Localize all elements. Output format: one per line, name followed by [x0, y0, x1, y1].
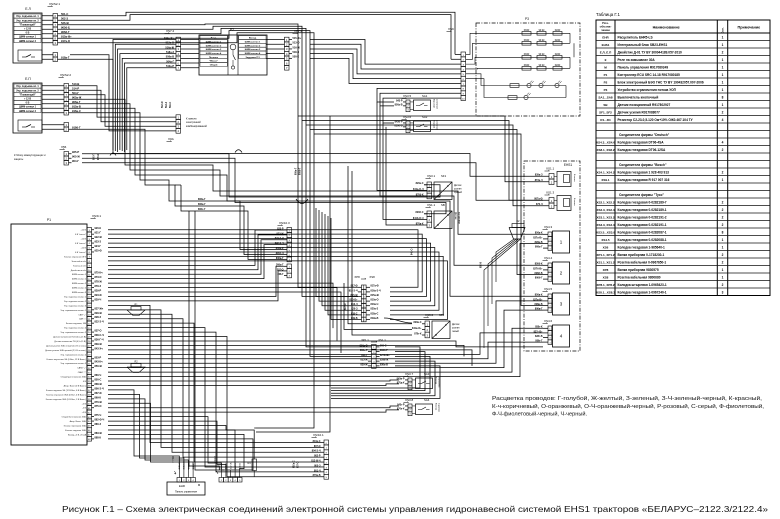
svg-text:620R: 620R — [555, 40, 561, 42]
svg-text:1: 1 — [722, 275, 724, 279]
svg-text:ХS/9.1: ХS/9.1 — [92, 214, 101, 218]
svg-text:Датчик усилия R917088077: Датчик усилия R917088077 — [618, 110, 661, 114]
svg-text:828г-В: 828г-В — [535, 335, 543, 338]
svg-text:1: 1 — [722, 103, 724, 107]
svg-text:816-З-Ч: 816-З-Ч — [349, 289, 358, 292]
svg-text:838-С-Ч: 838-С-Ч — [95, 334, 105, 337]
svg-text:Примечание: Примечание — [738, 26, 761, 30]
svg-text:822-З-Ч: 822-З-Ч — [95, 321, 104, 324]
svg-text:920-К: 920-К — [95, 227, 102, 230]
svg-text:829-Ж: 829-Ж — [95, 312, 103, 315]
svg-text:8: 8 — [722, 230, 724, 234]
svg-text:XS3.1, XS3.2: XS3.1, XS3.2 — [596, 215, 614, 219]
svg-text:90.9К: 90.9К — [539, 30, 545, 32]
svg-text:Клапан перекачки ЭЧБ: Клапан перекачки ЭЧБ — [64, 426, 87, 428]
svg-text:ХS8.1...ХS8.3: ХS8.1...ХS8.3 — [596, 290, 615, 294]
svg-text:Розетка кабельная 9800680: Розетка кабельная 9800680 — [618, 275, 661, 279]
svg-text:1: 1 — [722, 245, 724, 249]
svg-text:0 В: 0 В — [26, 32, 30, 35]
svg-text:ХS/10.1: ХS/10.1 — [313, 433, 324, 437]
svg-text:Колодка гнездовая 0-0282189-1: Колодка гнездовая 0-0282189-1 — [618, 208, 667, 212]
svg-text:2: 2 — [722, 260, 724, 264]
svg-text:906б-Г: 906б-Г — [61, 30, 70, 34]
svg-text:Кнопка подъема ЭЧБ (5 В Вкл, 1: Кнопка подъема ЭЧБ (5 В Вкл, 1 В Выкл.) — [46, 399, 87, 401]
svg-text:829-Ж: 829-Ж — [361, 363, 369, 366]
svg-text:873-О: 873-О — [95, 276, 102, 279]
svg-text:905б-Б: 905б-Б — [61, 25, 70, 29]
svg-text:ШИМ клапан 2: ШИМ клапан 2 — [72, 288, 87, 290]
svg-text:Упр. торможения клапан 4: Упр. торможения клапан 4 — [61, 354, 87, 356]
svg-text:869-К: 869-К — [95, 396, 102, 399]
svg-text:САН2 "+": САН2 "+" — [77, 367, 86, 370]
svg-text:левый: левый — [452, 330, 459, 333]
svg-text:F: F — [445, 323, 447, 327]
svg-text:820в-С: 820в-С — [414, 321, 422, 324]
svg-text:Расцепитель EHR5-LS: Расцепитель EHR5-LS — [618, 35, 653, 39]
svg-text:841-О: 841-О — [411, 248, 414, 255]
svg-text:2: 2 — [722, 223, 724, 227]
svg-text:XS4.3...XS4.6: XS4.3...XS4.6 — [596, 140, 615, 144]
svg-text:853-Р: 853-Р — [95, 356, 102, 359]
svg-text:+ 12 В: + 12 В — [24, 28, 31, 31]
svg-text:850-Ж: 850-Ж — [95, 365, 103, 368]
svg-text:875-Кч: 875-Кч — [95, 272, 104, 275]
svg-text:90.9К: 90.9К — [539, 65, 545, 67]
svg-text:XS2.1, XS2.2: XS2.1, XS2.2 — [596, 200, 614, 204]
svg-text:870г-К: 870г-К — [414, 332, 422, 335]
svg-text:Панель управления: Панель управления — [175, 491, 198, 494]
svg-text:516-Ж: 516-Ж — [293, 46, 301, 49]
svg-text:Таблица Г.1: Таблица Г.1 — [596, 12, 620, 17]
svg-text:868-Ж: 868-Ж — [95, 383, 103, 386]
svg-text:806с-Г: 806с-Г — [198, 208, 206, 211]
svg-text:515-Ф+: 515-Ф+ — [293, 37, 302, 40]
svg-text:ХР8.1, ХР8.2: ХР8.1, ХР8.2 — [596, 283, 614, 287]
svg-text:Е.Л, Е.П: Е.Л, Е.П — [600, 50, 612, 54]
svg-text:SA2: SA2 — [422, 115, 428, 119]
svg-text:883-Ж: 883-Ж — [95, 432, 103, 435]
svg-text:Устройство ограничения потока: Устройство ограничения потока УОП — [618, 88, 677, 92]
svg-text:806а-Г: 806а-Г — [198, 198, 206, 201]
svg-text:4: 4 — [722, 140, 724, 144]
svg-text:880-З: 880-З — [95, 423, 102, 426]
svg-text:8: 8 — [722, 95, 724, 99]
svg-text:Клапан: Клапан — [573, 198, 575, 206]
svg-text:828-З: 828-З — [95, 316, 102, 319]
svg-text:ХS3.5: ХS3.5 — [403, 94, 412, 98]
svg-text:1: 1 — [722, 80, 724, 84]
svg-text:Упр. подъема клапан 2: Упр. подъема клапан 2 — [64, 301, 87, 303]
svg-text:XS9.1: XS9.1 — [601, 178, 610, 182]
svg-text:Датчик: Датчик — [454, 185, 462, 187]
svg-text:827-Жч: 827-Жч — [95, 307, 104, 310]
svg-text:630R: 630R — [524, 40, 530, 42]
svg-text:924-Г: 924-Г — [95, 245, 102, 248]
svg-text:Колодка гнездовая DT06-4SA: Колодка гнездовая DT06-4SA — [618, 140, 665, 144]
svg-text:Нижний: Нижний — [433, 120, 436, 129]
svg-text:807-О: 807-О — [298, 461, 300, 468]
svg-text:Р2: Р2 — [604, 80, 608, 84]
svg-text:XS4.5: XS4.5 — [601, 238, 610, 242]
svg-text:К блоку коммутирующих и: К блоку коммутирующих и — [14, 153, 46, 157]
svg-text:630R: 630R — [524, 54, 530, 56]
svg-text:S: S — [447, 213, 449, 217]
svg-text:ХS1.1: ХS1.1 — [378, 338, 386, 342]
svg-text:ШИМ-сигнал 1: ШИМ-сигнал 1 — [19, 106, 37, 109]
svg-text:1: 1 — [722, 73, 724, 77]
svg-text:ХР8: ХР8 — [354, 275, 360, 279]
svg-text:U: U — [435, 333, 437, 337]
svg-text:Клапан подъема ЭЧБ: Клапан подъема ЭЧБ — [65, 430, 86, 432]
svg-text:526-Ж: 526-Ж — [61, 21, 69, 25]
svg-text:841в-О+: 841в-О+ — [412, 327, 422, 330]
svg-text:806в-Г: 806в-Г — [198, 203, 206, 206]
svg-text:+12 В: +12 В — [81, 230, 87, 232]
svg-text:ХS4.4: ХS4.4 — [544, 256, 553, 260]
svg-text:820а-С: 820а-С — [416, 182, 424, 185]
svg-text:XS3.3, XS3.4: XS3.3, XS3.4 — [596, 223, 614, 227]
svg-text:917а-О: 917а-О — [61, 39, 70, 43]
svg-text:817-Ф: 817-Ф — [344, 303, 347, 310]
svg-text:Интегральный блок SB23-EHS1: Интегральный блок SB23-EHS1 — [618, 43, 668, 47]
svg-text:Джойстик Д-01 ТУ BY 300044189.: Джойстик Д-01 ТУ BY 300044189.057-2010 — [618, 50, 683, 54]
svg-text:САН2 "-": САН2 "-" — [78, 371, 87, 374]
svg-text:SB: SB — [441, 203, 445, 207]
svg-text:Розетка кабельная 0-0967650-1: Розетка кабельная 0-0967650-1 — [618, 260, 667, 264]
svg-text:EHS1: EHS1 — [564, 163, 573, 167]
svg-text:511-С: 511-С — [170, 102, 172, 108]
svg-text:Реле на замыкание 30А: Реле на замыкание 30А — [618, 58, 656, 62]
svg-text:Колодка гнездовая R 917 007 31: Колодка гнездовая R 917 007 316 — [618, 178, 670, 182]
svg-text:2: 2 — [722, 208, 724, 212]
svg-text:90.9К: 90.9К — [539, 54, 545, 56]
svg-text:916а-З: 916а-З — [72, 109, 81, 113]
svg-text:Абор. Выкл (0 В Выкл.): Абор. Выкл (0 В Выкл.) — [64, 384, 87, 387]
svg-text:0 В: 0 В — [26, 102, 30, 105]
svg-text:F: F — [447, 184, 449, 188]
svg-text:САН "+": САН "+" — [78, 313, 86, 316]
svg-text:Общий для клапанов ЭЧБ: Общий для клапанов ЭЧБ — [61, 376, 87, 379]
svg-text:Задержка ПЧ: Задержка ПЧ — [245, 57, 260, 59]
svg-text:2: 2 — [722, 283, 724, 287]
svg-text:Общий: Общий — [210, 64, 218, 67]
svg-text:878-Ж: 878-Ж — [95, 281, 103, 284]
svg-text:ШИМ-сигнал 2: ШИМ-сигнал 2 — [19, 40, 37, 43]
svg-text:Колодка гнездовая 0-0282191-1: Колодка гнездовая 0-0282191-1 — [618, 223, 667, 227]
svg-text:ШИМ-сигнал 2: ШИМ-сигнал 2 — [19, 110, 37, 113]
svg-text:Колодка гнездовая 1-965640-1: Колодка гнездовая 1-965640-1 — [618, 245, 666, 249]
svg-text:К панели: К панели — [186, 118, 197, 121]
svg-text:806б-Г: 806б-Г — [535, 277, 543, 280]
svg-text:Е.Л: Е.Л — [25, 7, 30, 11]
svg-text:843-Кч: 843-Кч — [95, 361, 104, 364]
svg-text:514-Р: 514-Р — [72, 86, 79, 90]
svg-text:2: 2 — [722, 253, 724, 257]
svg-text:810а-О: 810а-О — [371, 299, 379, 302]
svg-text:Датчик положения ПЧ (0,5-4,5 В: Датчик положения ПЧ (0,5-4,5 В) — [54, 341, 86, 343]
svg-text:"Плавающий": "Плавающий" — [19, 93, 36, 96]
svg-text:ХS1.3: ХS1.3 — [546, 191, 555, 195]
svg-text:ХS/S2.2: ХS/S2.2 — [60, 73, 71, 77]
svg-text:813а-Ч: 813а-Ч — [371, 303, 379, 306]
svg-text:Рисунок Г.1 – Схема электричес: Рисунок Г.1 – Схема электрическая соедин… — [62, 505, 769, 514]
svg-text:921-Г: 921-Г — [95, 232, 102, 235]
svg-text:Колодка гнездовая 0-0282088-1: Колодка гнездовая 0-0282088-1 — [618, 238, 667, 242]
svg-text:843-Р: 843-Р — [396, 99, 403, 102]
svg-text:920-Г: 920-Г — [94, 153, 96, 160]
svg-text:806с-Г: 806с-Г — [360, 349, 368, 352]
svg-text:90.9К: 90.9К — [539, 40, 545, 42]
svg-text:U: U — [437, 223, 439, 227]
svg-text:0 В "масса": 0 В "масса" — [75, 243, 86, 245]
svg-text:ХS4.6: ХS4.6 — [544, 319, 553, 323]
svg-text:ШИМ клапан 3: ШИМ клапан 3 — [72, 292, 87, 294]
svg-text:1: 1 — [722, 238, 724, 242]
svg-text:949-В: 949-В — [240, 463, 242, 469]
svg-text:1: 1 — [722, 58, 724, 62]
svg-text:подъема: подъема — [438, 403, 440, 413]
svg-text:+12 В: +12 В — [81, 239, 87, 241]
svg-text:920-К: 920-К — [98, 153, 100, 160]
svg-text:Упр. подъема-оп. 2: Упр. подъема-оп. 2 — [16, 19, 39, 22]
svg-text:конечный: конечный — [436, 99, 439, 109]
svg-text:Колодка гнездовая 1 928 403 91: Колодка гнездовая 1 928 403 913 — [618, 170, 670, 174]
svg-text:Расцветка проводов: Г-голубой,: Расцветка проводов: Г-голубой, Ж-желтый,… — [492, 395, 762, 402]
svg-text:+5 В: +5 В — [82, 403, 87, 405]
svg-text:810а-С: 810а-С — [294, 460, 296, 468]
svg-text:502-З: 502-З — [61, 16, 68, 20]
svg-text:ХS8: ХS8 — [369, 275, 375, 279]
svg-text:усилия: усилия — [454, 188, 462, 190]
svg-text:888-К: 888-К — [95, 436, 102, 439]
svg-text:882-Ф-Ч: 882-Ф-Ч — [95, 419, 105, 422]
svg-text:1: 1 — [722, 178, 724, 182]
svg-text:Упр. торможения клапан 1: Упр. торможения клапан 1 — [61, 310, 87, 312]
svg-text:ХS3.6: ХS3.6 — [403, 115, 412, 119]
svg-text:Колодка гнездовая 1-0967240-1: Колодка гнездовая 1-0967240-1 — [618, 290, 667, 294]
svg-text:925-Р: 925-Р — [72, 150, 79, 154]
svg-text:837-О: 837-О — [95, 330, 102, 333]
svg-text:Наименование: Наименование — [653, 26, 680, 30]
svg-text:SF1, SF2: SF1, SF2 — [599, 110, 612, 114]
svg-text:XS6: XS6 — [603, 245, 609, 249]
svg-text:4: 4 — [722, 118, 724, 122]
svg-text:EHR: EHR — [602, 35, 609, 39]
svg-text:850-К: 850-К — [481, 261, 483, 268]
svg-text:875-Ч: 875-Ч — [95, 414, 102, 417]
svg-text:EHR: EHR — [179, 484, 185, 488]
svg-text:860-Ч: 860-Ч — [95, 374, 102, 377]
svg-text:SF1: SF1 — [441, 174, 447, 178]
svg-text:ХS3.7: ХS3.7 — [405, 372, 414, 376]
svg-text:Вилка приборная 0-1718230-1: Вилка приборная 0-1718230-1 — [618, 253, 665, 257]
svg-text:Кнопка подъема, ЭМ: Кнопка подъема, ЭМ — [66, 323, 86, 325]
svg-text:усилия: усилия — [452, 327, 460, 329]
svg-text:Упр. торможения клапан 3: Упр. торможения клапан 3 — [61, 363, 87, 365]
svg-text:Соединители фирмы "Bosch": Соединители фирмы "Bosch" — [619, 163, 667, 167]
svg-text:Выход +5 В, 20 мА: Выход +5 В, 20 мА — [68, 433, 87, 436]
svg-text:918а-Г: 918а-Г — [61, 55, 70, 59]
svg-text:ШИМ-сигнал 4: ШИМ-сигнал 4 — [245, 52, 261, 55]
svg-text:550-К: 550-К — [293, 56, 300, 59]
svg-text:Датчик усилия ЭЧБ правый (2,5: Датчик усилия ЭЧБ правый (2,5 В не изм.) — [45, 349, 86, 352]
svg-text:905-Ж: 905-Ж — [72, 155, 80, 159]
svg-text:Упр. подъема клапан 1: Упр. подъема клапан 1 — [64, 296, 87, 298]
svg-text:Клапан опускания ЭГК: Клапан опускания ЭГК — [64, 256, 87, 258]
svg-text:1: 1 — [722, 43, 724, 47]
svg-text:829-Р: 829-Р — [95, 290, 102, 293]
svg-text:819а-В: 819а-В — [371, 317, 379, 320]
svg-text:806-З-Ч: 806-З-Ч — [95, 387, 104, 390]
svg-text:XS3.5...XS3.9: XS3.5...XS3.9 — [596, 230, 615, 234]
svg-text:Упр. подъема-оп. 1: Упр. подъема-оп. 1 — [16, 15, 39, 18]
svg-text:EHS1: EHS1 — [602, 43, 610, 47]
svg-text:Блок электронный БЭО ГНС ТУ BY: Блок электронный БЭО ГНС ТУ BY 190432057… — [618, 80, 704, 84]
svg-text:Упр. подъема клапан 4: Упр. подъема клапан 4 — [64, 328, 87, 330]
svg-text:922-Ж: 922-Ж — [95, 236, 103, 239]
svg-text:839-Ж: 839-Ж — [95, 343, 103, 346]
svg-text:R1...R4: R1...R4 — [600, 118, 611, 122]
svg-text:829-Ч: 829-Ч — [95, 298, 102, 301]
svg-text:Зеленый инт/кг: Зеленый инт/кг — [71, 260, 86, 263]
svg-text:ХS1.1: ХS1.1 — [546, 167, 555, 171]
svg-text:308-Г: 308-Г — [277, 273, 284, 276]
svg-text:818а-С: 818а-С — [371, 312, 379, 315]
svg-text:501-С: 501-С — [61, 12, 68, 16]
svg-text:513-З: 513-З — [166, 101, 168, 108]
svg-text:915а-В: 915а-В — [72, 104, 81, 108]
svg-text:Датчик позиционный R917802927: Датчик позиционный R917802927 — [618, 103, 671, 107]
svg-text:867-Ф: 867-Ф — [95, 392, 103, 395]
svg-text:Кнопка опускания ЭЧ (0 Вкл, 12: Кнопка опускания ЭЧ (0 Вкл, 12 В Выкл.) — [47, 359, 87, 361]
svg-text:SA1...SA8: SA1...SA8 — [598, 95, 613, 99]
svg-text:Кнопка подъема ЭЧ (12 В Вкл, 0: Кнопка подъема ЭЧ (12 В Вкл, 0 В Выкл.) — [46, 390, 86, 392]
svg-text:620R: 620R — [555, 30, 561, 32]
svg-text:806б-Г: 806б-Г — [299, 167, 302, 175]
svg-text:XS4.1, XS4.2: XS4.1, XS4.2 — [596, 170, 614, 174]
svg-text:Колодка гнездовая 0-0282191-2: Колодка гнездовая 0-0282191-2 — [618, 215, 667, 219]
svg-text:Датчик положения ПЧ1 (0,5-4,5: Датчик положения ПЧ1 (0,5-4,5 В) — [53, 337, 86, 339]
svg-text:"Плавающий": "Плавающий" — [19, 23, 36, 26]
svg-text:Упр. подъема-оп. 1: Упр. подъема-оп. 1 — [16, 85, 39, 88]
svg-text:923-З: 923-З — [95, 241, 102, 244]
svg-text:510-В: 510-В — [72, 82, 79, 86]
svg-text:ХР1.1: ХР1.1 — [361, 338, 369, 342]
svg-text:0 В "масса": 0 В "масса" — [75, 252, 86, 254]
svg-text:870-Ж: 870-Ж — [95, 401, 103, 404]
svg-text:620R: 620R — [555, 65, 561, 67]
svg-text:816а-З-Ч: 816а-З-Ч — [371, 289, 381, 292]
svg-text:электронной: электронной — [186, 121, 201, 124]
svg-text:Датчик усилия ЭЧБ левый (2,5 В: Датчик усилия ЭЧБ левый (2,5 В не изм.) — [46, 344, 86, 347]
svg-text:Р1: Р1 — [47, 218, 51, 222]
svg-text:Выключатель кнопочный: Выключатель кнопочный — [618, 95, 659, 99]
svg-text:Кнопка: Кнопка — [435, 403, 437, 411]
svg-text:XS1.1, XS1.2: XS1.1, XS1.2 — [596, 260, 614, 264]
svg-text:827б-В+: 827б-В+ — [533, 267, 543, 270]
svg-text:2: 2 — [722, 50, 724, 54]
svg-text:905а-Ж: 905а-Ж — [72, 95, 82, 99]
svg-text:2: 2 — [722, 215, 724, 219]
svg-text:Панель управления R917080349: Панель управления R917080349 — [618, 65, 669, 69]
svg-text:Колодка гнездовая 0-0282087-1: Колодка гнездовая 0-0282087-1 — [618, 230, 667, 234]
svg-text:925-Ф: 925-Ф — [95, 249, 103, 252]
svg-text:ХР1.1, ХР1.2: ХР1.1, ХР1.2 — [596, 253, 614, 257]
svg-text:2: 2 — [722, 170, 724, 174]
svg-text:Р3: Р3 — [525, 17, 529, 21]
svg-text:620R: 620R — [555, 54, 561, 56]
svg-text:+5 В: +5 В — [82, 412, 87, 414]
svg-text:918б-Г: 918б-Г — [72, 125, 81, 129]
svg-text:Резистор С2-23-0,5-120 Ом+10%: Резистор С2-23-0,5-120 Ом+10% ОЖ0.467.10… — [618, 118, 694, 122]
svg-text:Ф-Ч-фиолетовый-черный, Ч-черны: Ф-Ч-фиолетовый-черный, Ч-черный. — [492, 411, 587, 418]
svg-text:САН "-": САН "-" — [79, 318, 86, 321]
svg-text:518-З: 518-З — [293, 51, 300, 54]
svg-text:830а-В: 830а-В — [380, 363, 388, 366]
svg-text:879-З: 879-З — [95, 285, 102, 288]
svg-text:823-Ф: 823-Ф — [95, 294, 103, 297]
svg-text:1: 1 — [722, 268, 724, 272]
svg-text:806б-Г: 806б-Г — [380, 349, 388, 352]
svg-text:904-Г: 904-Г — [72, 159, 79, 163]
svg-text:Колодка гнездовая 0-0282189-7: Колодка гнездовая 0-0282189-7 — [618, 200, 667, 204]
svg-text:ХS/S2.1: ХS/S2.1 — [49, 2, 60, 6]
svg-text:850-С: 850-С — [95, 379, 102, 382]
svg-text:Джойстик инт/кг: Джойстик инт/кг — [71, 269, 86, 272]
svg-text:+12 В: +12 В — [81, 248, 87, 250]
svg-text:XS2.3, XS2.4: XS2.3, XS2.4 — [596, 208, 614, 212]
svg-text:ХЗА: ХЗА — [168, 137, 174, 141]
svg-text:Колодка гнездовая DT06-12SA: Колодка гнездовая DT06-12SA — [618, 148, 667, 152]
svg-text:875-О: 875-О — [95, 405, 102, 408]
svg-text:817а-Ф: 817а-Ф — [371, 285, 379, 288]
svg-text:Упр. подъема клапан 3: Упр. подъема клапан 3 — [64, 305, 87, 307]
svg-text:ШИМ клапан 2: ШИМ клапан 2 — [72, 283, 87, 285]
svg-text:защиты: защиты — [14, 158, 23, 161]
svg-text:843-Хч: 843-Хч — [95, 347, 104, 350]
svg-text:опускания: опускания — [438, 377, 440, 388]
svg-text:630R: 630R — [524, 65, 530, 67]
svg-text:820а-З: 820а-З — [371, 308, 379, 311]
svg-text:Вилка приборная 9830575: Вилка приборная 9830575 — [618, 268, 659, 272]
svg-text:Общий 5м клапанов ЭЧБ: Общий 5м клапанов ЭЧБ — [62, 416, 87, 419]
svg-text:512-Ф: 512-Ф — [161, 101, 164, 108]
svg-text:806а-Г: 806а-Г — [535, 246, 543, 249]
svg-text:820б-С: 820б-С — [416, 211, 424, 214]
svg-text:850а-В: 850а-В — [395, 103, 403, 106]
svg-text:2: 2 — [722, 110, 724, 114]
svg-text:3: 3 — [722, 290, 724, 294]
svg-text:827а-В+: 827а-В+ — [533, 236, 543, 239]
svg-text:ШИМ клапан 1: ШИМ клапан 1 — [72, 274, 87, 276]
svg-text:-5 В: -5 В — [82, 408, 86, 410]
svg-text:ХS4.3: ХS4.3 — [544, 225, 553, 229]
svg-text:2: 2 — [722, 148, 724, 152]
svg-text:Кнопка инт/кг: Кнопка инт/кг — [73, 265, 86, 267]
svg-text:2: 2 — [722, 200, 724, 204]
svg-text:SA1: SA1 — [422, 94, 428, 98]
svg-text:Упр. торможения клапан 2: Упр. торможения клапан 2 — [61, 332, 87, 334]
svg-text:ШИМ клапан 1: ШИМ клапан 1 — [72, 279, 87, 281]
svg-text:ХS1.1: ХS1.1 — [427, 203, 436, 207]
svg-text:836-Г-Ч: 836-Г-Ч — [95, 338, 104, 341]
svg-text:Соединители фирмы "Тусо": Соединители фирмы "Тусо" — [619, 193, 664, 197]
svg-text:Е.П: Е.П — [25, 77, 31, 81]
svg-text:Датчик: Датчик — [452, 324, 460, 326]
svg-text:630R: 630R — [524, 30, 530, 32]
svg-text:Соединители фирмы "Deutsch": Соединители фирмы "Deutsch" — [619, 133, 670, 137]
svg-text:ХS/10.3: ХS/10.3 — [279, 221, 290, 225]
